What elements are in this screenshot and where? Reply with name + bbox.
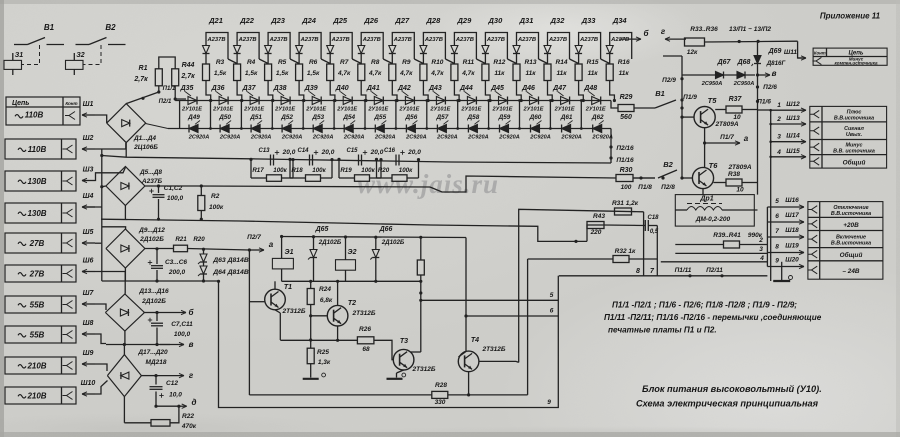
diode Д38 2У101Е: [281, 97, 290, 105]
wire 6 line: [466, 315, 558, 317]
resistor R4 1,5к: [234, 64, 241, 81]
svg-text:R3: R3: [216, 59, 225, 66]
svg-text:R14: R14: [556, 59, 568, 66]
svg-text:R29: R29: [620, 94, 633, 101]
wire R6 bottom: [299, 81, 304, 101]
svg-text:Д17...Д20: Д17...Д20: [137, 349, 168, 356]
wire vertical B (Д66 bus to Т4 base): [465, 238, 467, 352]
svg-text:9: 9: [547, 399, 551, 406]
svg-text:П1/11: П1/11: [675, 267, 692, 274]
svg-text:Uвых.: Uвых.: [846, 132, 863, 138]
resistor R12 11к: [482, 64, 489, 81]
svg-text:Т1: Т1: [284, 284, 292, 291]
wire bus to Ш12-Ш15: [758, 109, 771, 111]
connector Ш6 (~27В): [5, 265, 76, 282]
svg-text:В.В.источника: В.В.источника: [831, 241, 871, 247]
svg-text:110В: 110В: [25, 111, 44, 120]
svg-text:А237В: А237В: [486, 37, 505, 43]
wire R32 line: [528, 258, 613, 260]
svg-text:10: 10: [733, 114, 741, 121]
svg-text:5: 5: [775, 198, 779, 205]
svg-text:1: 1: [777, 102, 781, 109]
wire bridge2 return rail (long sagging line): [101, 219, 587, 241]
svg-text:Д39: Д39: [304, 85, 318, 92]
svg-text:27В: 27В: [29, 270, 45, 279]
svg-text:Д50: Д50: [218, 114, 231, 121]
svg-text:R6: R6: [309, 59, 318, 66]
resistor R38 10: [726, 179, 742, 186]
svg-text:100к: 100к: [209, 204, 224, 211]
wire R13 bottom: [517, 81, 522, 101]
svg-text:Общий: Общий: [840, 251, 863, 259]
svg-text:Ш14: Ш14: [786, 133, 800, 140]
svg-text:А237В: А237В: [517, 37, 536, 43]
svg-text:П2/11: П2/11: [706, 267, 723, 274]
svg-text:Д49: Д49: [187, 114, 200, 121]
svg-text:2У101Е: 2У101Е: [585, 107, 606, 113]
resistor R29 560: [618, 105, 634, 112]
wire left vertical rail: [101, 149, 103, 281]
diode Д35 2У101Е: [188, 97, 197, 105]
svg-text:2С920А: 2С920А: [281, 135, 303, 141]
svg-text:1,5к: 1,5к: [245, 70, 258, 77]
svg-text:а: а: [269, 240, 274, 249]
svg-text:11к: 11к: [525, 70, 536, 77]
svg-text:Д47: Д47: [552, 85, 567, 92]
svg-text:2Д102Б: 2Д102Б: [139, 236, 164, 243]
switch В1 (right): [634, 107, 655, 109]
svg-text:11к: 11к: [556, 70, 567, 77]
svg-text:в: в: [189, 340, 194, 349]
resistor R19 100к: [338, 159, 340, 178]
zener Д64 Д814В: [203, 263, 205, 267]
svg-text:Т5: Т5: [708, 96, 718, 105]
svg-text:Конт: Конт: [65, 101, 77, 106]
svg-text:20,0: 20,0: [370, 149, 384, 156]
diode Д48 2У101Е: [592, 97, 601, 105]
wire bridge5 rails: [141, 375, 156, 377]
svg-text:Цепь: Цепь: [849, 50, 864, 56]
svg-text:R12: R12: [493, 59, 505, 66]
wire arrow to Ш2: [82, 148, 95, 150]
svg-text:З1: З1: [15, 52, 23, 59]
svg-text:а: а: [744, 134, 749, 143]
svg-text:А237В: А237В: [362, 37, 381, 43]
switch В2: [633, 177, 655, 179]
resistor R21: [145, 248, 174, 250]
svg-text:R24: R24: [319, 286, 331, 293]
wire arrow to Ш5: [82, 242, 95, 244]
svg-text:А237В: А237В: [393, 37, 412, 43]
connector Ш2 (~110В): [5, 139, 76, 159]
wire arrow Ш13: [771, 123, 806, 125]
svg-text:Д60: Д60: [529, 114, 542, 121]
capacitor С15 20,0: [358, 155, 360, 166]
capacitor С7,С11 100,0: [156, 313, 158, 322]
wire г branch down to В1 contact: [663, 55, 682, 57]
svg-text:С16: С16: [384, 148, 396, 154]
diode Д37 2У101Е: [250, 97, 259, 105]
svg-text:R21: R21: [175, 236, 187, 243]
resistor R14 11к: [544, 64, 551, 81]
resistor R17 100к: [250, 159, 252, 178]
svg-text:10: 10: [736, 187, 744, 194]
wire arrow to Ш10: [82, 393, 95, 395]
svg-text:– 24В: – 24В: [842, 268, 859, 275]
svg-text:С18: С18: [647, 215, 659, 221]
svg-text:В.В. источника: В.В. источника: [833, 149, 875, 155]
svg-text:Д34: Д34: [612, 16, 628, 25]
diode Д46 2У101Е: [530, 97, 539, 105]
switch В1: [14, 44, 28, 46]
svg-text:Д23: Д23: [270, 16, 286, 25]
resistor R26 68: [337, 326, 339, 340]
resistor R32 1к: [613, 256, 629, 263]
wire Т3 emitter to ground: [397, 370, 404, 373]
svg-text:Т3: Т3: [400, 338, 408, 345]
switch В2: [76, 44, 90, 46]
wire bridge3 rail bottom: [102, 280, 219, 282]
svg-text:А237В: А237В: [548, 37, 567, 43]
bridge rectifier Д1..Д4 2Ц106Б: [107, 104, 146, 143]
svg-text:R43: R43: [593, 213, 605, 220]
svg-text:В1: В1: [44, 23, 55, 32]
wire R11 bottom: [454, 81, 459, 101]
svg-text:R33..R36: R33..R36: [690, 26, 718, 33]
svg-text:2С920А: 2С920А: [374, 135, 396, 141]
diode Д44 2У101Е: [467, 97, 476, 105]
svg-text:Ш7: Ш7: [83, 290, 95, 297]
svg-text:С15: С15: [346, 148, 358, 154]
resistor R7 4,7к: [327, 64, 334, 81]
svg-text:Д38: Д38: [273, 85, 287, 92]
svg-text:68: 68: [362, 346, 370, 353]
resistor R1 2,7к: [155, 69, 162, 86]
wire R10 bottom: [423, 81, 428, 101]
svg-text:Д63 Д814В: Д63 Д814В: [212, 257, 249, 264]
svg-text:R26: R26: [359, 326, 371, 333]
wire П2/6 П1/6 labels: [756, 85, 759, 88]
bridge rectifier Д17..Д20 МД218: [107, 355, 141, 397]
wire bridge5 top corner to rail: [123, 345, 125, 355]
wire Т5 emitter to Т6 collector / П1/7: [704, 128, 706, 168]
svg-text:Приложение 11: Приложение 11: [820, 12, 881, 21]
svg-text:Д29: Д29: [457, 16, 473, 25]
capacitor С16 20,0: [395, 155, 397, 166]
svg-text:П1/6: П1/6: [757, 99, 771, 106]
svg-text:R1: R1: [139, 65, 148, 72]
svg-text:R15: R15: [587, 59, 599, 66]
svg-text:Д21: Д21: [208, 16, 223, 25]
svg-text:Ш12: Ш12: [786, 101, 800, 108]
resistor R3 1,5к: [203, 64, 210, 81]
resistor R8 4,7к: [358, 64, 365, 81]
zener Д63 Д814В: [202, 248, 205, 251]
ground symbol: [781, 262, 783, 280]
svg-text:Д32: Д32: [550, 16, 566, 25]
svg-text:Блок питания высоковольтный: Блок питания высоковольтный (У10).: [642, 384, 822, 394]
svg-text:11к: 11к: [494, 70, 505, 77]
svg-text:А237В: А237В: [269, 37, 288, 43]
svg-text:Д37: Д37: [242, 85, 257, 92]
wire relay bottom rail: [282, 280, 421, 282]
wire П1/7 а arrow: [705, 142, 740, 144]
svg-text:130В: 130В: [27, 177, 46, 186]
resistor R25 1,3к: [310, 316, 312, 349]
wire R15 bottom: [579, 81, 584, 101]
wire д line: [154, 405, 157, 408]
svg-text:Д52: Д52: [280, 114, 293, 121]
svg-text:2Д102Б: 2Д102Б: [381, 239, 405, 246]
svg-text:2С920А: 2С920А: [312, 135, 334, 141]
svg-text:Др1: Др1: [699, 196, 713, 203]
svg-text:П1/16: П1/16: [616, 157, 634, 164]
svg-text:А237В: А237В: [610, 37, 629, 43]
connector table Ш11: [813, 48, 887, 65]
svg-text:1,5к: 1,5к: [276, 70, 289, 77]
resistor R30 100: [616, 175, 633, 182]
svg-text:Ш11: Ш11: [784, 49, 797, 56]
wire V1 vertical: [516, 361, 519, 362]
svg-text:2У101Е: 2У101Е: [212, 107, 233, 113]
connector Ш5 (~27В): [5, 233, 76, 253]
svg-text:4,7к: 4,7к: [368, 70, 382, 77]
resistor R43 220: [587, 222, 604, 229]
svg-text:R31 1,2к: R31 1,2к: [612, 200, 639, 207]
wire V1 top + R31 line: [519, 209, 644, 362]
wire V2 vertical: [527, 259, 529, 395]
svg-text:Конт: Конт: [814, 51, 826, 56]
svg-text:2Т312Б: 2Т312Б: [351, 310, 375, 317]
svg-text:Д25: Д25: [332, 16, 348, 25]
svg-text:2Т312Б: 2Т312Б: [281, 308, 305, 315]
svg-text:Ш9: Ш9: [83, 350, 94, 357]
svg-text:Д9...Д12: Д9...Д12: [138, 227, 165, 234]
wire П1/11 П2/11 top edge of board: [559, 275, 768, 277]
wire С18 verticals to П1-П2 line (8,7): [643, 212, 645, 276]
capacitor С3..С6 200,0: [156, 249, 158, 264]
svg-text:100к: 100к: [361, 167, 375, 174]
svg-text:R20: R20: [193, 236, 205, 243]
svg-text:560: 560: [620, 114, 632, 121]
svg-text:R37: R37: [729, 96, 743, 103]
svg-text:4: 4: [759, 255, 764, 262]
wire R9 bottom: [392, 81, 397, 101]
svg-text:Д65: Д65: [315, 226, 329, 233]
svg-text:4,7к: 4,7к: [430, 70, 444, 77]
relay coil Э1: [272, 258, 293, 269]
svg-text:210В: 210В: [26, 362, 46, 371]
wire 5 line: [421, 299, 559, 301]
svg-text:2У101Е: 2У101Е: [336, 107, 357, 113]
resistor R15 11к: [575, 64, 582, 81]
svg-text:2У101Е: 2У101Е: [460, 107, 481, 113]
wire row1 to R29: [611, 101, 618, 109]
svg-text:100,0: 100,0: [167, 195, 184, 202]
resistor R20 100к: [376, 159, 378, 178]
wire arrow Ш14: [771, 141, 806, 143]
svg-text:Д54: Д54: [342, 114, 355, 121]
wire в arrow: [758, 74, 771, 76]
wire arrow Ш17: [767, 221, 804, 223]
svg-text:2У101Е: 2У101Е: [492, 107, 513, 113]
transistor Т5 2Т809А: [694, 107, 715, 128]
connector table Ш16-Ш20: [808, 202, 883, 280]
wire Ш2 to bridge1 bottom: [95, 143, 126, 149]
bridge rectifier Д9..Д12 2Д102Б: [106, 229, 145, 268]
wire arrow Ш12: [771, 109, 806, 111]
svg-text:6: 6: [550, 308, 554, 315]
connector Ш10 (~210В): [5, 387, 76, 404]
wire Т4 emitter: [468, 372, 470, 395]
wire arrow Ш15: [771, 156, 806, 158]
svg-text:R17: R17: [252, 167, 264, 174]
svg-text:Т2: Т2: [348, 300, 356, 307]
wire Ш6 to bridge4 top: [95, 272, 125, 294]
svg-text:в: в: [772, 69, 777, 78]
svg-text:2,7к: 2,7к: [133, 76, 148, 83]
wire vertical П2/9 П1/9: [681, 56, 683, 178]
svg-text:4,7к: 4,7к: [461, 70, 475, 77]
wire R1 bottom / П2-1 П1-1 jumpers: [157, 90, 160, 93]
wire arrow to Ш3: [82, 180, 95, 182]
svg-text:Д64 Д814В: Д64 Д814В: [212, 269, 249, 276]
wire arrow Ш19: [767, 252, 804, 254]
svg-text:Д45: Д45: [490, 85, 504, 92]
svg-text:П2/1: П2/1: [159, 99, 172, 105]
svg-text:R19: R19: [340, 167, 352, 174]
svg-text:R25: R25: [317, 349, 329, 356]
svg-text:2С920А: 2С920А: [250, 135, 272, 141]
svg-text:С3...С6: С3...С6: [165, 259, 187, 266]
svg-text:П1/11 -П2/11; П1/16 -П2/16: П1/11 -П2/11; П1/16 -П2/16 - перемычки ,…: [604, 313, 822, 322]
svg-text:1,5к: 1,5к: [214, 70, 227, 77]
svg-text:П1/1 -П2/1 ; П1/6 - П2/6; П1: П1/1 -П2/1 ; П1/6 - П2/6; П1/8 -П2/8 ; П…: [612, 301, 797, 310]
svg-text:R11: R11: [463, 59, 475, 66]
svg-text:6: 6: [775, 213, 779, 220]
wire 9 board loop: [219, 276, 559, 408]
wire bus Ш16-Ш20 vertical: [766, 207, 768, 267]
svg-text:R16: R16: [618, 59, 630, 66]
wire bridge2 connections: [95, 168, 125, 181]
svg-text:110В: 110В: [28, 145, 47, 154]
wire arrow to Ш9: [82, 363, 95, 365]
connector Ш1 (~110В): [6, 97, 80, 125]
svg-text:100: 100: [621, 184, 632, 191]
svg-text:8: 8: [775, 244, 779, 251]
wire bridge1 connections: [158, 86, 160, 92]
svg-text:С14: С14: [297, 148, 309, 154]
resistor R44 2,7к: [172, 69, 179, 86]
svg-text:Д42: Д42: [397, 85, 411, 92]
svg-text:27В: 27В: [29, 239, 45, 248]
svg-text:печатные платы П1 и П2.: печатные платы П1 и П2.: [608, 326, 717, 335]
svg-text:Ш13: Ш13: [786, 115, 800, 122]
wire Т1 base vertical: [248, 250, 250, 395]
svg-text:55В: 55В: [30, 331, 45, 340]
resistor R24 6,8к: [307, 289, 314, 305]
capacitor С1,С2 100,0: [158, 186, 160, 193]
wire line 3: [675, 252, 767, 254]
svg-text:R2: R2: [211, 193, 220, 200]
svg-text:г: г: [189, 371, 194, 380]
wire R3 bottom: [206, 81, 211, 101]
svg-text:Д51: Д51: [249, 114, 262, 121]
relay coil Э1: [4, 60, 22, 69]
svg-text:Д59: Д59: [498, 114, 511, 121]
svg-text:R44: R44: [182, 62, 195, 69]
svg-text:С13: С13: [258, 148, 270, 154]
svg-text:2У101Е: 2У101Е: [429, 107, 450, 113]
ground under R25: [303, 378, 319, 380]
svg-text:Д31: Д31: [519, 16, 534, 25]
svg-text:R7: R7: [340, 59, 349, 66]
wire arrow to Ш7: [82, 303, 95, 305]
svg-text:2Ц106Б: 2Ц106Б: [133, 144, 158, 151]
bridge rectifier Д5..Д8 А237Б: [106, 167, 145, 206]
diode Д43 2У101Е: [436, 97, 445, 105]
svg-text:Т6: Т6: [709, 161, 719, 170]
svg-text:Д43: Д43: [428, 85, 442, 92]
svg-text:R38: R38: [728, 171, 740, 178]
svg-text:Д24: Д24: [301, 16, 317, 25]
connector Ш7 (~55В): [5, 296, 76, 313]
wire Т3 collector: [411, 351, 421, 353]
svg-text:Э2: Э2: [348, 249, 357, 256]
svg-text:С12: С12: [166, 380, 178, 387]
svg-text:2У101Е: 2У101Е: [243, 107, 264, 113]
svg-text:Ш6: Ш6: [83, 257, 94, 264]
svg-text:П2/8: П2/8: [661, 184, 675, 191]
wire bridge2 output rail: [145, 185, 197, 187]
svg-text:R32 1к: R32 1к: [615, 248, 636, 255]
resistor R31 1,2к: [615, 208, 632, 215]
svg-text:2С950А: 2С950А: [701, 81, 723, 87]
svg-text:Цепь: Цепь: [12, 100, 29, 107]
svg-text:Д66: Д66: [379, 226, 393, 233]
resistor R18 100к: [289, 159, 291, 178]
svg-text:2: 2: [776, 116, 781, 123]
svg-text:R30: R30: [620, 167, 633, 174]
svg-text:А237В: А237В: [300, 37, 319, 43]
wire R14 bottom: [548, 81, 553, 101]
wire line A: [102, 156, 611, 164]
resistor (vertical) on Т3 feed: [420, 237, 422, 259]
svg-text:Д1...Д4: Д1...Д4: [133, 135, 156, 142]
resistor R5 1,5к: [265, 64, 272, 81]
svg-text:А237В: А237В: [206, 37, 225, 43]
wire line 4: [661, 261, 768, 263]
svg-text:Ш3: Ш3: [83, 166, 94, 173]
diode Д69 Д816Г: [757, 41, 759, 55]
svg-text:4: 4: [776, 149, 781, 156]
svg-text:Т4: Т4: [471, 337, 479, 344]
connector table Ш12-Ш15: [810, 106, 887, 168]
svg-text:Д41: Д41: [366, 85, 380, 92]
wire R7 bottom: [330, 81, 335, 101]
svg-text:2: 2: [758, 237, 763, 244]
svg-text:2Т809А: 2Т809А: [727, 164, 751, 171]
svg-text:Д33: Д33: [581, 16, 597, 25]
svg-text:Ш15: Ш15: [786, 148, 800, 155]
svg-text:П2/9: П2/9: [662, 77, 676, 84]
svg-text:2С920А: 2С920А: [343, 135, 365, 141]
svg-text:+20В: +20В: [843, 222, 859, 229]
svg-text:2С920А: 2С920А: [188, 135, 210, 141]
svg-text:2У101Е: 2У101Е: [181, 107, 202, 113]
svg-text:6,8к: 6,8к: [320, 297, 333, 304]
svg-text:330: 330: [435, 399, 446, 406]
